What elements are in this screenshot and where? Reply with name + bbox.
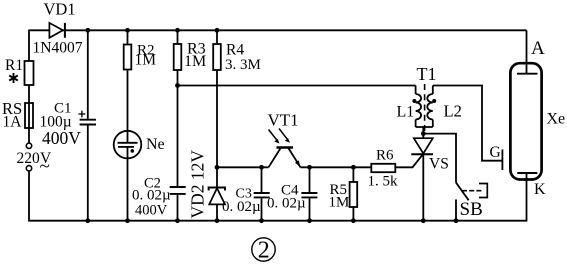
junction: top rail at C1 (85, 28, 90, 33)
junction: bottom rail at SB (454, 218, 459, 223)
junction: bottom rail at VS (421, 218, 426, 223)
svg-text:SB: SB (460, 199, 483, 220)
wire: cathode lead to bottom rail (526, 173, 528, 222)
wire: anode node to pushbutton SB (423, 134, 456, 183)
transformer T1 core (424, 84, 426, 131)
svg-text:1M: 1M (135, 52, 157, 69)
capacitor C4 (301, 167, 317, 220)
resistor R3 (174, 30, 182, 186)
wire: R3 node rail to transformer L1 (178, 85, 416, 87)
svg-text:2: 2 (258, 238, 270, 264)
label "*" (9, 73, 18, 83)
lamp anode electrode (517, 73, 538, 75)
svg-text:L1: L1 (397, 104, 415, 121)
wire: R1 to fuse RS (28, 85, 30, 103)
phototransistor VT1 (269, 129, 301, 168)
junction: VD2 top node (215, 165, 220, 170)
svg-text:VD2 12V: VD2 12V (188, 150, 208, 219)
svg-text:Xe: Xe (547, 111, 566, 128)
svg-text:R6: R6 (376, 148, 394, 164)
svg-text:~: ~ (40, 156, 50, 177)
capacitor C2 (170, 187, 186, 221)
junction: bottom rail at C1 (85, 218, 90, 223)
svg-text:R1: R1 (5, 57, 23, 74)
polarity dot L1 (412, 99, 416, 103)
resistor R6 (371, 164, 395, 172)
junction: bottom rail at C2 (175, 218, 180, 223)
junction: C3 top (259, 165, 264, 170)
junction: top rail at R4 (215, 28, 220, 33)
fuse RS (25, 103, 33, 143)
wire: T1 bottom bar (416, 126, 433, 128)
junction: bottom rail at Ne (125, 218, 130, 223)
wire: mid rail right segment (VT1 right foot to R6) (301, 166, 372, 168)
zener diode VD2 (209, 188, 225, 221)
wire: mid rail left segment (VD2 node to VT1 left foot) (217, 166, 269, 168)
svg-text:1M: 1M (184, 53, 206, 70)
terminal: AC input upper (26, 143, 31, 148)
junction: C4 top (307, 165, 312, 170)
svg-text:T1: T1 (417, 64, 437, 84)
wire: lower terminal to bottom rail (28, 170, 30, 221)
wire: T1 to thyristor anode (422, 127, 424, 138)
svg-text:L2: L2 (444, 102, 462, 121)
svg-text:G: G (490, 144, 501, 161)
svg-text:K: K (534, 181, 546, 198)
junction: R3 bottom node (175, 83, 180, 88)
svg-text:0. 02µ: 0. 02µ (132, 188, 171, 204)
svg-text:VD1: VD1 (44, 0, 76, 19)
svg-text:0. 02µ: 0. 02µ (222, 199, 261, 215)
svg-text:1N4007: 1N4007 (33, 40, 83, 57)
junction: top rail at R2 (125, 28, 130, 33)
svg-text:400V: 400V (135, 203, 168, 219)
svg-text:220: 220 (17, 150, 41, 167)
wire: left column top (rail to R1) (28, 30, 30, 62)
neon lamp Ne (114, 131, 142, 221)
wire: top supply rail (29, 29, 527, 31)
svg-text:A: A (531, 38, 545, 59)
capacitor C3 (254, 167, 270, 220)
svg-text:1. 5k: 1. 5k (368, 174, 399, 190)
resistor R4 (213, 30, 221, 187)
trigger electrode G (501, 150, 503, 171)
xenon flash lamp Xe tube (510, 63, 541, 179)
junction: bottom rail at R5 (351, 218, 356, 223)
polarity dot L2 (432, 99, 436, 103)
junction: thyristor anode node (421, 131, 426, 136)
pushbutton SB (456, 182, 488, 220)
junction: R5 top (351, 165, 356, 170)
thyristor VS (411, 138, 433, 221)
junction: bottom rail at C3 (259, 218, 264, 223)
resistor R2 (124, 30, 132, 143)
transformer T1 winding L1 (416, 86, 422, 128)
svg-text:1A: 1A (3, 114, 23, 131)
terminal: AC input lower (26, 166, 31, 171)
svg-text:400V: 400V (42, 128, 81, 148)
transformer T1 winding L2 (427, 86, 432, 128)
svg-text:VT1: VT1 (268, 111, 299, 130)
capacitor C1 (79, 30, 97, 220)
junction: bottom rail at VD2 (215, 218, 220, 223)
junction: bottom rail at C4 (307, 218, 312, 223)
resistor R5 (350, 167, 358, 220)
lamp cathode electrode (517, 172, 537, 174)
svg-text:1M: 1M (329, 195, 350, 211)
figure number ② (252, 238, 275, 264)
wire: R6 to thyristor gate (395, 154, 423, 168)
svg-text:Ne: Ne (146, 136, 165, 153)
svg-text:VS: VS (429, 156, 449, 173)
resistor R1 (25, 61, 34, 85)
svg-text:R4: R4 (226, 41, 244, 58)
svg-text:3. 3M: 3. 3M (225, 57, 261, 73)
wire: anode lead into lamp (526, 30, 528, 73)
diode VD1 (49, 23, 65, 38)
junction: top rail at R3 (175, 28, 180, 33)
svg-text:0. 02µ: 0. 02µ (267, 196, 306, 212)
wire: L2 node to lamp trigger G (433, 86, 503, 161)
wire: bottom rail (29, 220, 527, 222)
